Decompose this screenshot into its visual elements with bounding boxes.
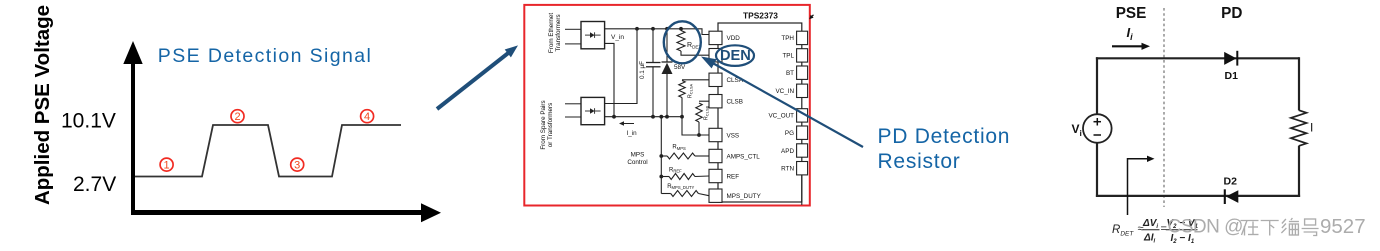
svg-text:RREF: RREF [669, 167, 682, 173]
svg-text:TPL: TPL [782, 53, 794, 60]
svg-text:D2: D2 [1224, 176, 1238, 188]
svg-text:1: 1 [164, 160, 170, 172]
svg-text:2.7V: 2.7V [73, 173, 116, 196]
svg-text:Control: Control [627, 159, 647, 166]
svg-text:RTN: RTN [781, 166, 794, 173]
svg-text:9527: 9527 [1320, 215, 1366, 238]
svg-text:DEN: DEN [720, 48, 751, 64]
svg-text:PD: PD [1221, 5, 1242, 22]
svg-text:PD Detection: PD Detection [878, 125, 1011, 148]
svg-text:PSE: PSE [1116, 5, 1147, 22]
svg-text:VC_IN: VC_IN [775, 88, 794, 95]
svg-text:2: 2 [234, 111, 240, 123]
svg-text:10.1V: 10.1V [61, 110, 116, 133]
svg-text:AMPS_CTL: AMPS_CTL [727, 153, 761, 160]
svg-text:Transformers: Transformers [555, 14, 562, 51]
svg-text:VSS: VSS [727, 132, 740, 139]
svg-text:D1: D1 [1225, 70, 1239, 82]
svg-text:MPS_DUTY: MPS_DUTY [727, 193, 762, 200]
svg-text:or Transformers: or Transformers [547, 103, 554, 147]
svg-text:CLSB: CLSB [727, 99, 743, 106]
svg-text:TPS2373: TPS2373 [743, 11, 778, 21]
svg-text:Resistor: Resistor [878, 150, 961, 173]
svg-text:3: 3 [294, 160, 300, 172]
svg-text:From Ethernet: From Ethernet [548, 13, 555, 53]
svg-text:VC_OUT: VC_OUT [768, 113, 794, 120]
svg-text:PG: PG [785, 130, 794, 137]
svg-text:CSDN @: CSDN @ [1168, 217, 1243, 238]
svg-text:TPH: TPH [781, 35, 794, 42]
svg-text:58V: 58V [674, 64, 686, 71]
svg-text:APD: APD [781, 148, 794, 155]
svg-text:0.1 µF: 0.1 µF [639, 61, 646, 79]
svg-text:MPS: MPS [631, 152, 645, 159]
svg-text:ΔVi: ΔVi [1142, 218, 1158, 230]
svg-text:BT: BT [786, 70, 794, 77]
svg-text:REF: REF [727, 173, 740, 180]
svg-text:RMPS_DUTY: RMPS_DUTY [667, 184, 694, 190]
svg-text:RMPS: RMPS [672, 145, 686, 151]
svg-text:PSE Detection Signal: PSE Detection Signal [158, 45, 372, 67]
svg-text:V_in: V_in [611, 34, 624, 41]
svg-text:4: 4 [364, 111, 370, 123]
svg-text:RCLSA: RCLSA [688, 83, 694, 98]
svg-text:From Spare Pairs: From Spare Pairs [540, 100, 547, 149]
svg-text:Applied PSE Voltage: Applied PSE Voltage [31, 5, 54, 205]
svg-text:I: I [1310, 121, 1313, 135]
svg-text:I_in: I_in [627, 130, 638, 137]
svg-text:VDD: VDD [727, 35, 741, 42]
